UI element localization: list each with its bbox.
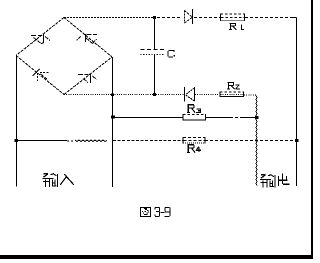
caption 图 bbox=[141, 208, 151, 217]
bridge diamond side top-left bbox=[16, 18, 64, 56]
node junction dotted rail at x=112 bbox=[111, 94, 114, 97]
resistor R1 bbox=[221, 14, 245, 22]
wire dotted vertical x=256 bbox=[256, 96, 257, 186]
capacitor C lead bottom bbox=[154, 55, 156, 95]
resistor R4 bbox=[183, 137, 205, 144]
diode D4 lower-right of bridge bbox=[78, 74, 97, 83]
bridge diamond side bottom-left bbox=[16, 56, 64, 95]
bottom window bar bbox=[0, 255, 313, 259]
diode D1 upper-left of bridge bbox=[31, 34, 50, 44]
wire right AC vertical from bridge right vertex bbox=[112, 57, 114, 187]
right window border bbox=[311, 0, 313, 257]
resistor R2 bbox=[220, 92, 244, 98]
bridge diamond side bottom-right bbox=[64, 57, 112, 95]
node junction cap top bbox=[153, 16, 156, 19]
node junction R3 row at x=112 bbox=[111, 116, 115, 119]
label R1 bbox=[230, 23, 244, 29]
label C bbox=[168, 50, 175, 57]
wire R4 row left solid segment bbox=[17, 140, 68, 142]
label R3 bbox=[188, 105, 201, 113]
node junction R4 row at x=16 bbox=[15, 139, 19, 142]
label output 出 bbox=[279, 174, 290, 186]
wire top dashed rail y=17 bbox=[64, 17, 297, 19]
node junction R4 row at x=256 bbox=[256, 140, 258, 142]
label output 输 bbox=[261, 175, 276, 187]
capacitor C plates bbox=[141, 50, 165, 55]
wire R3 row right segment bbox=[206, 117, 257, 119]
node junction R4 row at x=296 bbox=[295, 139, 299, 142]
wire dotted rail y=94.5 from bridge bottom vertex bbox=[64, 94, 257, 97]
diode D6 mid rail pointing left bbox=[185, 87, 195, 102]
wire output right vertical x=296 bbox=[296, 18, 298, 187]
wire R4 row wavy segment bbox=[67, 140, 107, 142]
diode D2 upper-right of bridge bbox=[77, 34, 98, 44]
diode D3 lower-left of bridge bbox=[33, 69, 50, 81]
wire R4 row dashed segment left of R4 bbox=[113, 140, 183, 142]
resistor R3 bbox=[183, 114, 206, 121]
label R4 bbox=[188, 145, 201, 153]
caption 3-9 bbox=[155, 207, 170, 216]
label input 入 bbox=[61, 175, 74, 185]
wire R4 row dashed segment right of R4 bbox=[205, 140, 296, 142]
node junction cap bottom bbox=[153, 93, 156, 96]
node junction R3 row end bbox=[255, 116, 259, 119]
label R2 bbox=[228, 83, 240, 89]
label input 输 bbox=[43, 174, 58, 187]
wire left AC vertical from bridge left vertex bbox=[16, 56, 18, 187]
wire R3 row left segment bbox=[113, 117, 184, 119]
diode D5 top rail bbox=[185, 9, 193, 24]
bridge diamond side top-right bbox=[64, 18, 112, 58]
capacitor C lead top bbox=[154, 18, 156, 50]
